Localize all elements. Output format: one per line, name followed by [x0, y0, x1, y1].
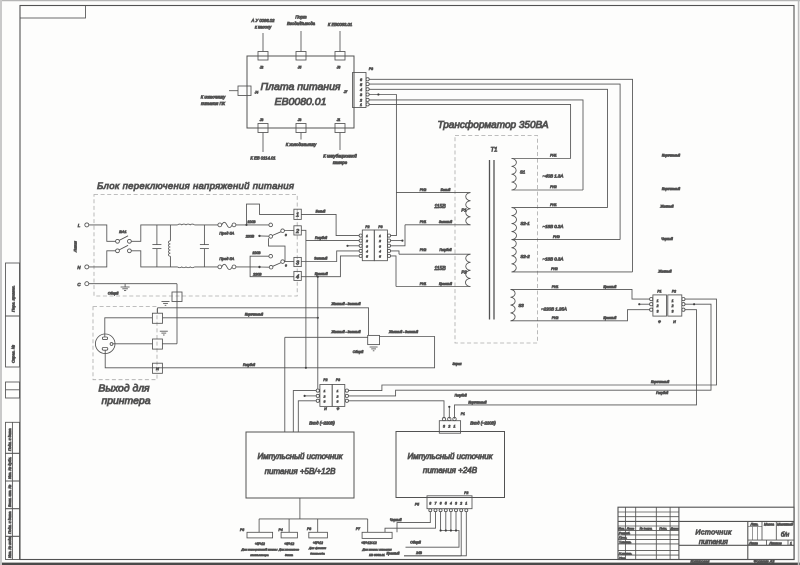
- svg-text:5: 5: [366, 254, 368, 258]
- lug square on earth wire: [152, 313, 162, 323]
- wire to PC supply label: [229, 90, 238, 92]
- svg-text:Черный: Черный: [390, 518, 402, 522]
- inductor top rail: [178, 223, 195, 226]
- connector P6 motherboard: [240, 528, 278, 557]
- wire red box4 to pair pin5: [301, 256, 359, 277]
- pair pin2 stub with junction: [305, 395, 317, 397]
- svg-text:2: 2: [295, 229, 300, 235]
- scan border top: [0, 0, 800, 2]
- lug square on center wire: [153, 339, 163, 349]
- wire supply pair pin3r to 321 pin3: [349, 401, 445, 419]
- svg-text:Р1: Р1: [461, 412, 465, 416]
- scan border bottom: [0, 563, 800, 565]
- scan border left: [0, 0, 2, 565]
- svg-text:Разраб.: Разраб.: [619, 531, 630, 535]
- winding P1: [396, 188, 470, 225]
- bus drop 2: [288, 519, 290, 532]
- svg-text:Коричневый: Коричневый: [662, 187, 680, 191]
- left column: Perv. primen. box: [6, 263, 20, 316]
- svg-text:питания +24В: питания +24В: [423, 466, 478, 475]
- wire A brown S3-P2 pin1 to supply pair pin1r: [349, 299, 717, 391]
- connector X2 top: [251, 18, 276, 70]
- wire white box1 to pair pin1: [301, 214, 359, 235]
- ground symbol below mid lug: [353, 347, 378, 354]
- junction dot 220V A: [258, 235, 260, 237]
- series link 220A to B common node: [269, 238, 286, 261]
- terminal box 2: [294, 226, 301, 235]
- svg-text:Голубой: Голубой: [439, 248, 451, 252]
- connector P1 at S3 output: [650, 290, 667, 324]
- svg-text:2: 2: [459, 502, 462, 506]
- svg-text:Экран: Экран: [452, 362, 461, 366]
- svg-text:ЕВ0080.01: ЕВ0080.01: [275, 96, 327, 108]
- svg-text:6: 6: [440, 502, 442, 506]
- earth riser from lug to yellow-green wire: [157, 308, 159, 313]
- connector P3 right: [343, 67, 373, 108]
- svg-text:3: 3: [443, 425, 445, 429]
- svg-text:С: С: [77, 282, 81, 287]
- output bus 5V supply: [299, 498, 301, 519]
- svg-text:РН1: РН1: [420, 282, 427, 286]
- transformer T1 dashed boundary: [455, 136, 538, 344]
- svg-text:Желтый: Желтый: [659, 205, 673, 209]
- wire P2 pins 1-2 24V red: [460, 512, 462, 556]
- svg-text:Р1: Р1: [657, 290, 661, 294]
- svg-text:3: 3: [296, 261, 300, 267]
- svg-text:Взам. инв. №: Взам. инв. №: [8, 485, 12, 507]
- svg-text:1: 1: [366, 234, 368, 238]
- svg-text:Изм.: Изм.: [619, 526, 625, 530]
- svg-text:Пров.: Пров.: [619, 536, 627, 540]
- svg-text:Вход (~220В): Вход (~220В): [309, 421, 335, 426]
- SECTION: powerboard: [201, 15, 633, 272]
- wire to EB0114 label: [262, 133, 264, 153]
- wire selector A common to box2: [284, 229, 294, 231]
- svg-text:питания: питания: [699, 537, 728, 546]
- wire printer center pin: [113, 343, 153, 345]
- wire to EB0083 label: [339, 31, 341, 52]
- svg-text:Копировал: Копировал: [691, 559, 711, 563]
- svg-text:3: 3: [455, 502, 457, 506]
- wire B blue S3-P2 pin2 to supply pair pin2r: [349, 304, 712, 396]
- svg-text:Желтый - Зеленый: Желтый - Зеленый: [330, 302, 360, 306]
- vertical V2 from box4 red wire down to pair pin1: [317, 277, 319, 389]
- svg-text:~220В 1.25А: ~220В 1.25А: [541, 307, 567, 312]
- transformer core: [489, 160, 491, 320]
- svg-text:1: 1: [465, 502, 467, 506]
- svg-text:Плата питания: Плата питания: [260, 81, 340, 93]
- winding P2: [396, 248, 471, 287]
- svg-text:Лит.: Лит.: [750, 522, 759, 526]
- filter choke vertical: [168, 225, 170, 267]
- switching supply 5V/12V box: [246, 432, 354, 498]
- left column: Inv. No podl. box: [6, 536, 20, 560]
- svg-text:115В: 115В: [434, 204, 446, 210]
- svg-text:24В: 24В: [415, 551, 423, 555]
- svg-text:диска: диска: [285, 553, 293, 557]
- stub pair pin3 with junction: [348, 245, 360, 247]
- svg-text:~18В 0.3А: ~18В 0.3А: [543, 257, 564, 262]
- svg-text:с: с: [285, 264, 287, 268]
- output connector P2 of 24V supply: [415, 491, 472, 512]
- name cell divider: [679, 544, 794, 546]
- left column: Podp. i data 2 box: [6, 509, 20, 537]
- svg-text:3: 3: [672, 309, 674, 313]
- svg-text:N: N: [77, 265, 81, 270]
- N lug square: [153, 363, 163, 373]
- svg-text:Справ. №: Справ. №: [11, 344, 16, 363]
- svg-text:принтера: принтера: [102, 396, 151, 407]
- left column: Vzam. inv. No box: [6, 481, 20, 509]
- svg-text:Вход (~220В): Вход (~220В): [470, 421, 496, 426]
- terminal C: [85, 282, 89, 286]
- svg-text:Коричневый: Коричневый: [662, 154, 680, 158]
- svg-text:3: 3: [657, 309, 659, 313]
- svg-text:камере: камере: [333, 160, 348, 165]
- svg-text:с: с: [285, 233, 287, 237]
- svg-text:J8: J8: [259, 118, 264, 122]
- wire printer earth pin up: [105, 318, 153, 337]
- left column: Inv. No dubl. box: [6, 453, 20, 481]
- wire center lug to C drop: [162, 343, 177, 345]
- svg-text:Порт: Порт: [295, 15, 307, 20]
- C drop vertical: [176, 284, 178, 344]
- title block horizontal main: [618, 520, 794, 522]
- wire P3 pin4 to S2-1 start: [369, 89, 607, 207]
- winding S1: [512, 154, 584, 190]
- wire L to switch: [89, 225, 116, 241]
- svg-text:Т1: Т1: [490, 148, 497, 154]
- svg-text:J1: J1: [336, 118, 341, 122]
- svg-text:7: 7: [435, 502, 437, 506]
- svg-text:110В: 110В: [252, 251, 261, 255]
- wire fuse2 to 220B dot: [236, 266, 260, 268]
- svg-text:дисковода: дисковода: [310, 552, 325, 556]
- S3 connector pin2 stub with junction: [639, 303, 649, 305]
- wire switch to filter bottom: [131, 251, 177, 267]
- left column: Sprav. No box: [6, 316, 20, 367]
- connector X8 bottom: [250, 118, 275, 161]
- svg-text:Белый: Белый: [441, 188, 451, 192]
- connector pair P3 above 5V supply: [332, 378, 348, 411]
- svg-text:~40В 1.3А: ~40В 1.3А: [543, 174, 564, 179]
- svg-text:Зеленый: Зеленый: [314, 257, 327, 261]
- terminal box 4: [294, 271, 301, 280]
- svg-text:Общий: Общий: [410, 541, 421, 545]
- svg-text:Масштаб: Масштаб: [777, 522, 793, 526]
- svg-text:К ЕВ0083.01: К ЕВ0083.01: [328, 22, 352, 27]
- wire P3 pin6 to S2-2: [369, 79, 632, 272]
- wire fuse1 to box1 node: [236, 204, 294, 225]
- svg-text:б/н: б/н: [781, 533, 790, 539]
- svg-text:J5: J5: [297, 66, 302, 70]
- svg-text:Н: Н: [673, 320, 676, 324]
- svg-text:2: 2: [656, 304, 659, 308]
- wire N to switch: [89, 251, 116, 267]
- svg-text:Листов: Листов: [768, 542, 782, 546]
- svg-text:Коричневый: Коричневый: [651, 380, 669, 384]
- svg-text:Пред 5А: Пред 5А: [219, 232, 234, 236]
- svg-text:Подп. и дата: Подп. и дата: [8, 512, 12, 535]
- svg-text:Формат А3: Формат А3: [754, 559, 776, 563]
- common bus P2 pins 3-6: [440, 512, 442, 531]
- bus drop 3: [317, 519, 319, 532]
- svg-text:РН1: РН1: [550, 203, 557, 207]
- svg-text:Коричневый: Коричневый: [468, 401, 486, 405]
- svg-text:Утв.: Утв.: [619, 556, 626, 560]
- svg-text:S1: S1: [520, 170, 526, 175]
- filter capacitor C2: [200, 225, 209, 267]
- connector pair P2 above 5V supply: [316, 378, 332, 411]
- wire to IO port label: [300, 31, 302, 52]
- svg-text:Красный: Красный: [315, 272, 328, 276]
- svg-text:110В: 110В: [247, 220, 256, 224]
- wire selector B common to box3: [284, 261, 294, 263]
- svg-text:Перв. примен.: Перв. примен.: [11, 285, 16, 312]
- svg-text:Трансформатор 350ВА: Трансформатор 350ВА: [437, 119, 548, 131]
- svg-text:РН1: РН1: [420, 220, 427, 224]
- svg-text:Р2: Р2: [365, 225, 369, 229]
- junction fuse1 rail: [245, 224, 247, 226]
- fuse F2: [218, 257, 236, 270]
- svg-text:4: 4: [450, 502, 452, 506]
- svg-text:1: 1: [790, 542, 792, 546]
- wire 220B dot to contact: [260, 266, 270, 268]
- selector B: [252, 251, 287, 276]
- svg-text:Линия: Линия: [74, 241, 78, 253]
- svg-text:Р5: Р5: [415, 503, 419, 507]
- svg-text:ЕВ 0080.01: ЕВ 0080.01: [369, 553, 385, 557]
- wire top rail to fuse: [194, 224, 218, 226]
- wire to incubation chamber label: [339, 133, 341, 151]
- svg-text:РН2: РН2: [420, 248, 427, 252]
- winding S3: [511, 285, 650, 321]
- riser 321 pin2 with junction dot: [448, 407, 450, 419]
- svg-text:Красный: Красный: [603, 316, 616, 320]
- svg-text:Инв. № дубл.: Инв. № дубл.: [8, 457, 12, 479]
- svg-text:1: 1: [379, 234, 381, 238]
- svg-text:3: 3: [360, 93, 362, 97]
- bus drop 1: [258, 519, 260, 532]
- svg-text:Коричневый: Коричневый: [245, 312, 263, 316]
- junction V2 at red wire: [317, 276, 319, 278]
- svg-text:Инв. № подл.: Инв. № подл.: [8, 536, 12, 558]
- svg-text:Р2: Р2: [672, 290, 676, 294]
- svg-text:Р2: Р2: [323, 378, 327, 382]
- svg-text:1: 1: [657, 299, 659, 303]
- svg-text:4: 4: [296, 275, 299, 281]
- svg-text:5: 5: [445, 502, 447, 506]
- svg-text:1: 1: [672, 299, 674, 303]
- svg-text:РН2: РН2: [551, 267, 558, 271]
- svg-text:Подп. и дата: Подп. и дата: [8, 429, 12, 452]
- svg-text:S3: S3: [518, 303, 524, 308]
- vertical V3 from yellow-green wire into supply input: [284, 337, 286, 432]
- svg-text:N: N: [156, 366, 159, 371]
- svg-text:РН2: РН2: [552, 316, 559, 320]
- svg-text:Блок переключения напряжений п: Блок переключения напряжений питания: [97, 181, 294, 192]
- connector X6 top: [328, 22, 352, 70]
- svg-text:Р1: Р1: [461, 208, 467, 213]
- svg-text:1: 1: [454, 425, 456, 429]
- svg-text:К источнику: К источнику: [201, 95, 226, 100]
- svg-text:Р6: Р6: [240, 528, 244, 532]
- switch BA1: [116, 229, 132, 253]
- connector X4 left: [201, 86, 259, 106]
- svg-text:1: 1: [324, 389, 326, 393]
- scan border right: [798, 0, 800, 565]
- svg-text:115В: 115В: [434, 266, 446, 272]
- yellow-green wire 2: [285, 336, 368, 338]
- bus drop 4: [367, 519, 369, 532]
- SECTION: switchblock: [74, 181, 406, 296]
- svg-text:Белый: Белый: [316, 210, 326, 214]
- svg-text:Дата: Дата: [670, 526, 679, 530]
- wire P3 pin2 to S1 end: [369, 100, 583, 190]
- wire printer bottom pin blue to ground lug: [105, 337, 434, 368]
- connector pair P3 middle: [374, 225, 390, 261]
- svg-text:Импульсный источник: Импульсный источник: [407, 452, 493, 461]
- wire P2 pin7 to P7: [385, 512, 436, 533]
- svg-text:Желтый - Зеленый: Желтый - Зеленый: [330, 330, 360, 334]
- svg-text:3: 3: [379, 244, 381, 248]
- vertical V1 from box2 node to blue wire: [305, 241, 307, 368]
- power board EB0080.01: [247, 56, 354, 128]
- connector X5 top: [287, 15, 316, 70]
- svg-text:Голубой: Голубой: [315, 236, 327, 240]
- ground symbol at C lug: [162, 302, 170, 306]
- svg-text:5: 5: [360, 83, 362, 87]
- wire C terminal to drop: [89, 283, 177, 285]
- junction dot 220V B: [258, 266, 260, 268]
- svg-text:ВА1: ВА1: [119, 229, 126, 234]
- connector X1 bottom: [323, 118, 357, 165]
- svg-text:Выход для: Выход для: [98, 384, 150, 395]
- svg-text:2: 2: [365, 239, 368, 243]
- wire green box3 to pair pin4: [301, 251, 359, 262]
- svg-text:Черный: Черный: [661, 237, 673, 241]
- svg-text:Общий: Общий: [108, 292, 119, 296]
- left column: Podp. i data box: [6, 422, 20, 453]
- svg-text:3: 3: [366, 244, 368, 248]
- connector pair P2 middle: [359, 225, 374, 261]
- winding S2-2: [512, 240, 633, 272]
- svg-text:Р2: Р2: [461, 270, 467, 275]
- svg-text:Р4: Р4: [279, 528, 283, 532]
- wire to refrigerator label: [300, 133, 302, 140]
- svg-text:2: 2: [671, 304, 674, 308]
- terminal box 1: [294, 209, 301, 219]
- svg-text:К ЕВ 0114.01: К ЕВ 0114.01: [250, 156, 275, 161]
- svg-text:J6: J6: [336, 66, 341, 70]
- stub P3 pin2 with junction: [391, 240, 403, 242]
- right section verticals: [747, 521, 749, 559]
- svg-text:Красный: Красный: [439, 282, 452, 286]
- svg-text:Н: Н: [324, 407, 327, 411]
- wire fuse1 rail to 110A contact: [247, 224, 269, 226]
- svg-text:S2-2: S2-2: [520, 254, 530, 259]
- ground at C wire: [108, 284, 130, 296]
- wire C brown S3-P2 pin3 to 321 pin1: [455, 310, 697, 419]
- svg-text:L: L: [78, 223, 81, 228]
- svg-text:J7: J7: [343, 90, 348, 94]
- svg-text:К инкубационной: К инкубационной: [323, 154, 357, 159]
- svg-text:+5/+12: +5/+12: [284, 542, 294, 546]
- wire 110B contact to box4: [250, 256, 294, 277]
- SECTION: supplies: [240, 378, 504, 557]
- wire to pump label: [262, 33, 264, 52]
- svg-text:Для материнской платы: Для материнской платы: [241, 548, 279, 552]
- wire P3 pin5 to P2 winding bottom: [391, 256, 396, 287]
- svg-text:1: 1: [337, 389, 339, 393]
- SECTION: titleblock: [618, 507, 794, 563]
- svg-text:Ф: Ф: [337, 407, 340, 411]
- svg-text:Ф: Ф: [658, 320, 661, 324]
- svg-text:1: 1: [360, 103, 362, 107]
- SECTION: printer: [93, 284, 435, 407]
- connector P8 floppy: [307, 527, 327, 556]
- svg-text:питания ПК: питания ПК: [201, 101, 225, 106]
- filter capacitor C1: [152, 225, 161, 267]
- fuse F1: [218, 222, 236, 235]
- svg-text:S2-1: S2-1: [520, 221, 530, 226]
- ground symbol below lug: [160, 331, 168, 335]
- printer dashed boundary: [93, 307, 157, 380]
- SECTION: midwiring: [285, 241, 717, 432]
- wire P3 pin5 to S2-1 end: [369, 84, 620, 240]
- svg-text:~18В 0.3А: ~18В 0.3А: [543, 224, 564, 229]
- svg-text:3: 3: [324, 399, 326, 403]
- svg-text:к насосу: к насосу: [255, 25, 272, 30]
- svg-text:Для флоппи: Для флоппи: [308, 546, 326, 550]
- svg-text:Р3: Р3: [369, 67, 373, 71]
- svg-text:Красный: Красный: [387, 551, 400, 555]
- svg-text:+5/+12/-12: +5/+12/-12: [361, 541, 377, 545]
- svg-text:Источник: Источник: [695, 528, 732, 537]
- junction S3-P2 pin2 stub: [693, 303, 695, 305]
- brown wire from lug to V2: [163, 317, 318, 319]
- svg-text:РН2: РН2: [550, 185, 557, 189]
- ground lug square mid: [368, 335, 380, 344]
- svg-text:Т.контр.: Т.контр.: [619, 540, 632, 544]
- pair pin1 wire down to supply input: [293, 391, 316, 432]
- svg-text:Лист: Лист: [748, 542, 758, 546]
- svg-text:Голубой: Голубой: [455, 393, 467, 397]
- svg-text:8: 8: [429, 502, 431, 506]
- svg-text:Импульсный источник: Импульсный источник: [257, 452, 343, 461]
- lug square on C drop: [172, 292, 182, 302]
- svg-text:+5/+12: +5/+12: [313, 541, 323, 545]
- svg-text:Р8: Р8: [307, 527, 311, 531]
- svg-text:Лист: Лист: [626, 526, 635, 530]
- svg-text:питания +5В/+12В: питания +5В/+12В: [265, 467, 336, 476]
- svg-text:Голубой: Голубой: [243, 363, 255, 367]
- svg-text:2: 2: [323, 394, 326, 398]
- svg-text:Ввода/Вывода: Ввода/Вывода: [287, 21, 316, 26]
- svg-text:Желтый: Желтый: [657, 270, 671, 274]
- terminal box 3: [294, 257, 301, 266]
- svg-text:Н.контр.: Н.контр.: [619, 552, 632, 556]
- wire bottom rail to fuse: [194, 266, 218, 268]
- svg-text:Красный: Красный: [603, 285, 616, 289]
- svg-text:4: 4: [360, 88, 362, 92]
- svg-text:А У 0086.02: А У 0086.02: [251, 18, 276, 23]
- svg-text:компьютера: компьютера: [250, 553, 268, 557]
- svg-text:Подп.: Подп.: [659, 526, 667, 530]
- svg-text:220В: 220В: [245, 235, 255, 239]
- switching supply 24V box: [396, 432, 505, 498]
- svg-text:1: 1: [296, 213, 299, 219]
